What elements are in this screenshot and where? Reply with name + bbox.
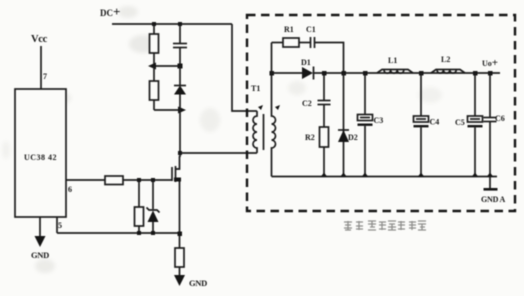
capacitor C1 label bbox=[306, 25, 316, 34]
node Vcc label bbox=[31, 34, 48, 45]
inductor L1 bbox=[377, 70, 413, 74]
capacitor C4 label bbox=[430, 118, 440, 127]
svg-text:UC38 42: UC38 42 bbox=[24, 153, 57, 162]
wire C4 to ground line bbox=[420, 128, 422, 177]
wire secondary to D1 bbox=[272, 72, 303, 74]
diode clamp bbox=[174, 66, 186, 95]
ground label bottom bbox=[189, 278, 207, 288]
svg-text:7: 7 bbox=[43, 72, 47, 81]
dashed output box bbox=[247, 15, 515, 211]
pin 5 label bbox=[58, 221, 62, 230]
resistor R5 current sense bbox=[175, 248, 184, 267]
svg-text:C6: C6 bbox=[495, 114, 505, 123]
svg-text:L1: L1 bbox=[388, 56, 397, 65]
pin 6 label bbox=[68, 185, 72, 194]
svg-text:D2: D2 bbox=[348, 133, 358, 142]
wire clamp capacitor to mid line bbox=[179, 48, 181, 67]
node junction C5 bottom bbox=[472, 173, 479, 178]
transistor Q1 MOSFET bbox=[172, 156, 181, 182]
node Uo+ label bbox=[482, 57, 498, 69]
wire to D2 bbox=[343, 73, 345, 177]
wire clamp resistor to mid line bbox=[153, 53, 155, 66]
capacitor C2 label bbox=[302, 99, 312, 108]
svg-text:Vcc: Vcc bbox=[31, 34, 48, 45]
wire to C4 bbox=[420, 73, 422, 116]
svg-text:T1: T1 bbox=[251, 84, 260, 93]
ground arrow bottom bbox=[174, 275, 185, 286]
inductor L1 label bbox=[388, 56, 397, 65]
wire R2 to ground line bbox=[323, 147, 325, 177]
ground GNDA label bbox=[481, 195, 506, 204]
node junction C3 bottom bbox=[362, 173, 369, 178]
ground arrow under U1 bbox=[35, 236, 46, 247]
wire Vcc to pin 7 bbox=[40, 46, 42, 89]
capacitor C5 electrolytic bbox=[468, 116, 483, 127]
diode D2 label bbox=[348, 133, 358, 142]
node junction R4 bottom bbox=[137, 231, 141, 235]
wire C2 to R2 bbox=[323, 105, 325, 128]
node junction C2 bottom bbox=[321, 173, 328, 178]
transformer T1 label bbox=[251, 84, 260, 93]
capacitor C6 label bbox=[495, 114, 505, 123]
wire U1 ground lead bbox=[39, 217, 41, 236]
resistor R2 label bbox=[305, 133, 315, 142]
node junction secondary top bbox=[270, 71, 275, 76]
wire R1 to C1 bbox=[299, 42, 310, 44]
svg-text:GND: GND bbox=[189, 278, 207, 288]
node junction D3 bottom bbox=[151, 231, 155, 235]
node junction rail C bbox=[178, 22, 182, 26]
ground label under U1 bbox=[31, 250, 49, 260]
node DC+ label bbox=[100, 4, 120, 19]
node junction C4 bottom bbox=[418, 173, 425, 178]
svg-text:R2: R2 bbox=[305, 133, 315, 142]
diode D2 bbox=[338, 130, 349, 142]
svg-text:C4: C4 bbox=[430, 118, 440, 127]
capacitor C3 label bbox=[374, 116, 384, 125]
wire clamp mid connector bbox=[148, 63, 183, 70]
svg-text:D1: D1 bbox=[301, 58, 311, 67]
svg-text:C3: C3 bbox=[374, 116, 384, 125]
zener diode D3 bbox=[147, 208, 160, 223]
svg-text:5: 5 bbox=[58, 221, 62, 230]
node junction C3 top bbox=[363, 71, 368, 76]
capacitor C4 electrolytic bbox=[414, 116, 429, 127]
ground GNDA bar bbox=[484, 188, 498, 191]
transformer T1 primary winding bbox=[253, 111, 257, 153]
transformer phase dot secondary bbox=[275, 105, 280, 110]
wire C5 to ground line bbox=[474, 128, 476, 177]
wire rail to clamp capacitor bbox=[179, 24, 181, 44]
wire gate resistor to MOSFET gate bbox=[123, 179, 172, 181]
svg-text:GND A: GND A bbox=[481, 195, 506, 204]
wire to C3 bbox=[364, 73, 366, 115]
wire D1 cathode output line bbox=[314, 72, 501, 74]
wire drain corner to Q1 bbox=[179, 153, 181, 157]
wire C1 to corner bbox=[315, 43, 344, 74]
wire to C6 bbox=[489, 73, 491, 118]
svg-text:L2: L2 bbox=[441, 55, 450, 64]
U1 value label UC3842 bbox=[24, 153, 57, 162]
wire pin 5 down bbox=[56, 217, 58, 233]
caption output rectifier filter circuit (blurred CJK) bbox=[344, 221, 426, 230]
capacitor C1 bbox=[311, 37, 315, 48]
svg-text:R1: R1 bbox=[284, 25, 294, 34]
node junction C5 top bbox=[473, 71, 478, 76]
diode D1 bbox=[302, 67, 314, 80]
wire Q1 source down bbox=[179, 181, 181, 248]
wire to C5 bbox=[474, 73, 476, 116]
wire clamp bottom connector bbox=[154, 100, 186, 114]
transformer T1 secondary winding bbox=[272, 73, 276, 177]
node junction C2 top bbox=[322, 71, 327, 76]
node junction rail R bbox=[152, 22, 156, 26]
diode D1 label bbox=[301, 58, 311, 67]
resistor clamp upper bbox=[150, 34, 159, 53]
wire pin 5 to MOSFET source node bbox=[57, 232, 180, 234]
node junction drain bbox=[178, 151, 182, 155]
resistor R1 bbox=[283, 38, 299, 47]
capacitor clamp bbox=[173, 44, 187, 48]
wire C3 to ground line bbox=[364, 126, 366, 177]
capacitor C6 bbox=[484, 118, 497, 122]
svg-text:6: 6 bbox=[68, 185, 72, 194]
svg-text:Uo+: Uo+ bbox=[482, 57, 498, 69]
node junction D2 top bbox=[342, 71, 347, 76]
inductor L2 bbox=[431, 70, 465, 74]
transformer phase dot primary bbox=[258, 105, 263, 110]
wire pin 6 to gate resistor bbox=[66, 179, 105, 181]
pin 7 label bbox=[43, 72, 47, 81]
node junction C6 top bbox=[488, 71, 493, 76]
wire DC+ rail bbox=[112, 23, 232, 25]
op-amp U1 UC3842 controller box bbox=[15, 89, 66, 217]
resistor R1 label bbox=[284, 25, 294, 34]
wire to resistor R4 bbox=[138, 180, 140, 207]
wire C6 to ground line bbox=[489, 122, 491, 177]
wire rail corner down to primary top bbox=[232, 24, 257, 111]
wire secondary vertical upper bbox=[271, 43, 273, 74]
wire to C2 bbox=[323, 73, 325, 101]
svg-text:C1: C1 bbox=[306, 25, 316, 34]
capacitor C3 electrolytic bbox=[358, 115, 373, 126]
node junction source and pin5 line bbox=[178, 232, 183, 237]
wire D3 to source line bbox=[152, 222, 154, 233]
wire ground A stub bbox=[489, 177, 491, 189]
node junction C6 bottom bbox=[487, 173, 494, 178]
wire secondary top to snubber bbox=[272, 42, 284, 44]
resistor R4 gate-source bbox=[135, 207, 144, 226]
wire drain to primary bottom bbox=[180, 152, 257, 154]
wire output ground line bbox=[272, 176, 498, 178]
node junction gate line left bbox=[137, 178, 141, 182]
wire drain branch vertical bbox=[179, 95, 181, 154]
capacitor C5 label bbox=[455, 118, 465, 127]
wire R4 to source line bbox=[138, 226, 140, 233]
svg-text:GND: GND bbox=[31, 250, 49, 260]
resistor R3 gate series bbox=[105, 176, 123, 185]
inductor L2 label bbox=[441, 55, 450, 64]
resistor clamp lower bbox=[150, 66, 159, 100]
wire R5 to ground bbox=[179, 267, 181, 275]
capacitor C2 bbox=[318, 101, 331, 105]
wire rail to clamp resistor bbox=[153, 24, 155, 34]
resistor R2 bbox=[320, 127, 329, 147]
wire to zener D3 bbox=[152, 180, 154, 209]
node junction D2 bottom bbox=[340, 173, 347, 178]
transformer core bbox=[263, 114, 265, 150]
node junction gate line right bbox=[151, 178, 155, 182]
svg-text:C5: C5 bbox=[455, 118, 465, 127]
node junction C4 top bbox=[419, 71, 424, 76]
svg-text:C2: C2 bbox=[302, 99, 312, 108]
